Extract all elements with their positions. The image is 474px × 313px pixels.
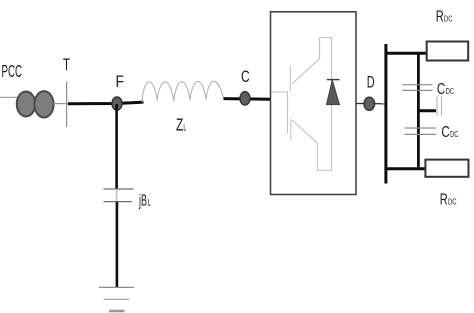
ground top line <box>99 286 134 288</box>
svg-text:D: D <box>367 74 375 92</box>
svg-text:DC: DC <box>444 13 453 23</box>
wire T to F to inductor <box>68 102 144 104</box>
svg-text:PCC: PCC <box>2 61 23 81</box>
svg-text:R: R <box>440 192 448 209</box>
svg-text:Z: Z <box>176 115 184 135</box>
svg-text:C: C <box>241 68 250 86</box>
svg-text:C: C <box>441 124 449 141</box>
IGBT body bar upper <box>289 66 291 92</box>
svg-text:R: R <box>436 8 444 25</box>
wire capacitor to ground <box>116 202 119 288</box>
diode cathode bar <box>327 79 340 81</box>
wire converter box to DC bus through node D <box>356 103 386 105</box>
node F <box>112 97 122 110</box>
ground bottom line <box>109 310 125 313</box>
midpoint capacitor vertical plates <box>436 97 438 116</box>
IGBT body bar lower <box>290 119 292 140</box>
capacitor jBL bottom plate <box>103 201 131 203</box>
DC link middle vertical wire <box>417 53 420 167</box>
capacitor CDC upper plate 1 <box>402 84 432 86</box>
node D <box>364 97 375 110</box>
DC bus left vertical <box>384 44 387 184</box>
converter box U1 <box>271 12 357 195</box>
transformer T right winding <box>34 91 53 117</box>
wire midpoint stub <box>418 109 436 112</box>
diode wire vertical <box>331 38 333 171</box>
ground middle line <box>104 298 130 300</box>
capacitor CDC lower plate 2 <box>405 133 436 135</box>
svg-text:F: F <box>116 72 125 91</box>
IGBT emitter path <box>292 120 332 170</box>
T bus vertical line <box>66 82 68 128</box>
diode D1 triangle <box>327 80 340 105</box>
inductor ZL <box>142 81 223 102</box>
transformer T left winding <box>17 92 36 117</box>
svg-text:T: T <box>63 55 70 74</box>
wire DC bus to bottom resistor <box>385 167 426 170</box>
svg-text:C: C <box>437 81 445 98</box>
capacitor jBL gap stub <box>116 189 118 202</box>
capacitor CDC upper plate 2 <box>402 89 432 91</box>
svg-text:jB: jB <box>138 192 147 209</box>
wire inductor to converter box through node C <box>224 97 271 101</box>
svg-text:L: L <box>148 197 151 207</box>
wire F down to shunt capacitor <box>115 104 118 189</box>
IGBT collector path <box>292 38 332 85</box>
wire from left edge to transformer <box>0 96 18 98</box>
node C <box>240 92 250 105</box>
resistor RDC bottom box <box>425 160 468 177</box>
svg-text:DC: DC <box>450 129 458 139</box>
wire DC bus to top resistor <box>385 52 428 55</box>
wire transformer to T bus <box>54 103 67 105</box>
IGBT gate lead <box>272 92 288 134</box>
capacitor jBL top plate <box>103 188 133 190</box>
svg-text:L: L <box>183 123 186 133</box>
resistor RDC top box <box>427 42 469 61</box>
svg-text:DC: DC <box>446 86 454 96</box>
svg-text:DC: DC <box>448 197 457 207</box>
capacitor CDC lower plate 1 <box>405 127 436 129</box>
